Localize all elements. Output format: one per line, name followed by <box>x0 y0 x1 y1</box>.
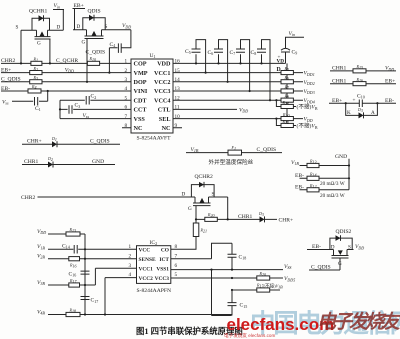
wire VSS1 pin6 row <box>171 264 292 271</box>
svg-text:C8: C8 <box>251 50 257 56</box>
svg-text:C5: C5 <box>185 49 191 55</box>
svg-text:VSS: VSS <box>284 264 291 270</box>
svg-text:VDD3: VDD3 <box>304 89 315 95</box>
svg-text:外并型温度保险丝: 外并型温度保险丝 <box>209 158 254 166</box>
svg-text:G: G <box>82 40 86 46</box>
svg-text:(不接)VB: (不接)VB <box>297 122 318 130</box>
svg-text:CHR2: CHR2 <box>21 195 36 201</box>
resistor R4 <box>28 84 41 93</box>
wire VCC3 pin13 row to ladder <box>173 90 303 92</box>
resistor R16 top right <box>353 77 366 86</box>
capacitor C7 (VDD-VCC3 loop) <box>230 40 251 93</box>
svg-text:D: D <box>57 25 61 31</box>
svg-text:GND: GND <box>335 154 347 160</box>
wire ladder chain vertical <box>286 63 288 123</box>
svg-text:C_QCHR: C_QCHR <box>56 58 78 64</box>
svg-text:V1B: V1B <box>37 244 45 250</box>
resistor R7 <box>281 84 315 95</box>
capacitor C3 on CCT pin 6 <box>59 103 131 114</box>
ground GND with row V1B-R13 <box>291 154 350 190</box>
capacitor C1 with Vss node <box>2 91 48 112</box>
svg-text:C2: C2 <box>91 94 97 100</box>
svg-text:CHR+: CHR+ <box>279 217 294 223</box>
transistor QCHR2 (P-MOSFET with body diode) <box>182 174 228 219</box>
svg-text:6: 6 <box>175 263 178 269</box>
svg-text:D: D <box>277 67 281 73</box>
wire VCC3 pin5 row with resistor R20b to VDD5 <box>171 271 295 282</box>
svg-text:CO: CO <box>161 248 169 254</box>
diode D2 row (CHR1 to GND) <box>22 156 115 168</box>
svg-text:DOP: DOP <box>134 79 147 86</box>
svg-text:QCHR2: QCHR2 <box>195 174 214 180</box>
svg-text:D: D <box>182 191 186 197</box>
capacitor C9 electrolytic with Vin node and diode VD <box>277 31 305 73</box>
node Vin (top of QCHR1 drain) <box>53 3 64 9</box>
svg-text:COP: COP <box>134 61 147 68</box>
svg-text:NC: NC <box>162 125 171 132</box>
transistor QDIS (P-MOSFET with body diode) <box>73 9 131 82</box>
capacitor C5 (VDD-VCC1 loop) <box>185 40 207 74</box>
capacitor C2 on CDT pin 5 <box>60 94 131 119</box>
pin numbers U1 left 1-8 <box>125 59 128 129</box>
capacitor C4 <box>108 30 131 74</box>
wire CTL pin11 row <box>173 108 248 114</box>
svg-text:VDD: VDD <box>304 117 313 123</box>
resistor R3 <box>30 75 42 84</box>
svg-text:VCC3: VCC3 <box>155 276 170 282</box>
wire VSS pin 7 row <box>60 113 131 119</box>
capacitor C14 on V1B row to pin1 <box>37 243 137 253</box>
svg-text:ICT: ICT <box>159 257 169 263</box>
capacitor C18 <box>228 254 247 269</box>
svg-text:D: D <box>331 244 335 250</box>
resistor R2 <box>30 66 42 75</box>
svg-text:S-8254AAVFT: S-8254AAVFT <box>137 136 172 142</box>
node EB+ (top of QDIS drain) <box>73 3 86 9</box>
svg-text:C15: C15 <box>240 303 248 309</box>
wire SEL pin10 row to ladder <box>173 118 303 120</box>
svg-text:VDD: VDD <box>239 108 248 114</box>
svg-text:V1B: V1B <box>291 160 299 166</box>
svg-text:VCC2: VCC2 <box>139 276 154 282</box>
svg-text:VSS: VSS <box>134 116 146 123</box>
svg-text:QDIS: QDIS <box>88 9 101 15</box>
capacitor C16 vertical <box>69 271 90 277</box>
svg-text:U1: U1 <box>150 53 156 59</box>
op-amp IC2 (protection IC S-8244AAPFN) <box>137 240 172 294</box>
svg-text:G: G <box>37 41 41 47</box>
svg-text:S: S <box>212 191 215 197</box>
svg-text:C6: C6 <box>208 50 214 56</box>
svg-text:VDD: VDD <box>385 66 394 72</box>
svg-text:C14: C14 <box>62 243 70 249</box>
svg-text:Vin: Vin <box>289 31 296 37</box>
capacitor C10 with diode D3 (EB+ to EB-) <box>329 94 396 119</box>
svg-text:C_QDIS: C_QDIS <box>311 264 331 270</box>
svg-text:D: D <box>77 24 81 30</box>
svg-text:CTL: CTL <box>158 107 171 114</box>
svg-text:+: + <box>353 98 356 104</box>
svg-text:CHR+: CHR+ <box>27 139 42 145</box>
resistor R1 <box>31 57 42 66</box>
svg-text:C3: C3 <box>75 103 81 109</box>
svg-text:A: A <box>371 110 375 116</box>
wire NC stubs U1 <box>122 127 182 129</box>
svg-text:8: 8 <box>175 244 178 250</box>
svg-text:C9: C9 <box>292 50 298 56</box>
svg-text:VCC1: VCC1 <box>139 266 154 272</box>
wire row VDD to R13 (IC2 top-left) <box>37 229 85 315</box>
svg-text:VDD: VDD <box>37 229 46 235</box>
wire R20 row with diode D3 to CHR+ <box>195 211 293 223</box>
svg-text:S: S <box>105 24 108 30</box>
resistor R13 left-bottom <box>66 227 80 236</box>
svg-text:GND: GND <box>92 159 104 165</box>
svg-text:K: K <box>347 110 351 116</box>
svg-text:VDD: VDD <box>355 244 364 250</box>
wire row V3B via R17 to pin3 <box>37 268 137 287</box>
wire VCC2 pin14 row to ladder <box>173 81 303 83</box>
svg-text:V4B: V4B <box>37 309 45 315</box>
resistor R21 vertical <box>171 219 207 249</box>
resistor R14 (not connected option) <box>276 100 317 111</box>
svg-text:CHR1: CHR1 <box>24 159 39 165</box>
svg-text:Vss: Vss <box>2 99 9 105</box>
svg-text:VCC: VCC <box>139 248 151 254</box>
svg-text:5: 5 <box>175 272 178 278</box>
svg-text:S: S <box>16 25 19 31</box>
svg-text:C_QDIS: C_QDIS <box>86 50 106 56</box>
resistor R10 ladder <box>281 112 313 123</box>
svg-text:C4: C4 <box>110 42 116 48</box>
wire VDD pin16 row <box>173 62 286 64</box>
svg-text:Vin: Vin <box>54 3 61 9</box>
resistor R12 (not connected option) <box>276 119 317 130</box>
svg-text:CDT: CDT <box>134 97 148 104</box>
resistor R6 <box>281 75 315 86</box>
svg-text:SENSE: SENSE <box>139 257 156 263</box>
wire row VINI (EB- sense) <box>1 86 131 92</box>
svg-text:CHR1: CHR1 <box>238 214 253 220</box>
wire row VMP (EB+ sense) <box>1 67 131 73</box>
svg-text:VDD1: VDD1 <box>304 71 315 77</box>
svg-text:QDIS2: QDIS2 <box>336 229 352 235</box>
wire VCC1 pin15 row to ladder <box>173 72 303 74</box>
svg-text:20 mΩ/3 W: 20 mΩ/3 W <box>320 181 345 187</box>
svg-text:(不接)VB: (不接)VB <box>297 103 318 111</box>
svg-text:电子发烧友: 电子发烧友 <box>317 311 400 333</box>
svg-text:VINI: VINI <box>134 88 148 95</box>
svg-text:C16: C16 <box>69 271 77 277</box>
wire ICT pin7 row up-over to C18 <box>171 243 232 258</box>
svg-text:S-8244AAPFN: S-8244AAPFN <box>137 288 172 294</box>
svg-text:C10: C10 <box>357 94 365 100</box>
svg-text:VDD: VDD <box>65 67 74 73</box>
svg-text:G: G <box>338 261 342 267</box>
wire row COP (CHR2 gate-drive line) <box>1 58 131 64</box>
capacitor C15 <box>228 290 248 316</box>
svg-text:VCC1: VCC1 <box>154 70 171 77</box>
svg-text:G: G <box>188 206 192 212</box>
transistor QCHR1 (P-MOSFET with body diode) <box>16 9 64 64</box>
wire row EB- shunt 1 <box>295 173 350 187</box>
diode D1 row (CHR+ to C_QDIS) <box>22 136 120 148</box>
svg-text:C_QDIS: C_QDIS <box>90 139 110 145</box>
svg-text:CCT: CCT <box>134 107 148 114</box>
svg-text:C1: C1 <box>35 106 41 112</box>
svg-text:V3B: V3B <box>37 280 45 286</box>
svg-text:VD: VD <box>277 59 285 65</box>
svg-text:VCC4: VCC4 <box>154 97 171 104</box>
capacitor C8 (VDD-VCC4 loop) <box>251 40 272 102</box>
fuse F1 thermal row <box>186 145 282 155</box>
svg-text:C17: C17 <box>91 298 99 304</box>
svg-text:VCC2: VCC2 <box>154 79 171 86</box>
wire row V4B bottom with resistor R18 <box>37 308 232 317</box>
resistor R13 right column <box>307 159 319 168</box>
resistor R15 top right <box>353 64 366 73</box>
svg-text:VDD: VDD <box>157 61 171 68</box>
svg-text:VSS1: VSS1 <box>156 266 169 272</box>
svg-text:IC2: IC2 <box>150 240 158 246</box>
wire row EB- shunt 2 <box>295 185 349 200</box>
svg-text:V1B: V1B <box>191 147 199 153</box>
resistor R14 shunt <box>307 171 319 180</box>
svg-text:SEL: SEL <box>159 116 171 123</box>
transistor QDIS2 (P-MOSFET with body diode) <box>307 229 364 270</box>
svg-text:VCC3: VCC3 <box>154 88 171 95</box>
svg-text:电子发烧友 elecfans.com: 电子发烧友 elecfans.com <box>224 332 275 339</box>
svg-text:QCHR1: QCHR1 <box>29 9 48 15</box>
svg-text:EB-: EB- <box>312 244 321 250</box>
svg-text:V2B: V2B <box>37 254 45 260</box>
svg-text:C18: C18 <box>239 254 247 260</box>
resistor R8 <box>281 94 315 105</box>
svg-text:R17(不接)V1B: R17(不接)V1B <box>256 282 283 289</box>
wire VCC4 pin12 row to ladder <box>173 99 303 101</box>
wire pin4 VCC2 down to bottom row <box>105 278 137 315</box>
svg-text:VDD5: VDD5 <box>284 276 295 282</box>
wire row DOP (C_QDIS discharge gate line) <box>1 77 131 83</box>
svg-text:S: S <box>348 244 351 250</box>
svg-text:VMP: VMP <box>134 70 148 77</box>
svg-text:NC: NC <box>134 125 143 132</box>
resistor R12 shunt <box>307 183 319 192</box>
svg-text:C_QDIS: C_QDIS <box>257 147 277 153</box>
wire row V2B to pin2 with resistor R16 <box>37 254 137 269</box>
wire vertical from VSS row down to bottom row <box>212 270 232 316</box>
capacitor C17 vertical <box>81 297 99 304</box>
wire row CHR1 to EB+ (top right) <box>330 78 396 84</box>
pin numbers IC2 <box>129 244 178 278</box>
svg-text:VDD2: VDD2 <box>304 80 315 86</box>
svg-text:VDD: VDD <box>122 23 131 29</box>
svg-text:Vss: Vss <box>83 113 90 119</box>
resistor R20 <box>205 212 218 221</box>
wire row CHR1 to VDD (top right) <box>330 66 396 72</box>
op-amp U1 (protection IC S-8254AAVFT) <box>131 53 173 142</box>
resistor R17b not-connected row <box>231 282 283 292</box>
capacitor C6 (VDD-VCC2 loop) <box>208 40 229 83</box>
resistor R10 <box>87 56 99 65</box>
wire CHR2 long row <box>21 195 184 201</box>
pin numbers U1 right 16-9 <box>175 59 181 129</box>
svg-text:VDD4: VDD4 <box>304 98 315 104</box>
svg-text:C7: C7 <box>230 50 236 56</box>
svg-text:20 mΩ/3 W: 20 mΩ/3 W <box>320 193 345 199</box>
resistor R5 <box>281 66 315 77</box>
svg-text:EB+: EB+ <box>385 78 395 84</box>
